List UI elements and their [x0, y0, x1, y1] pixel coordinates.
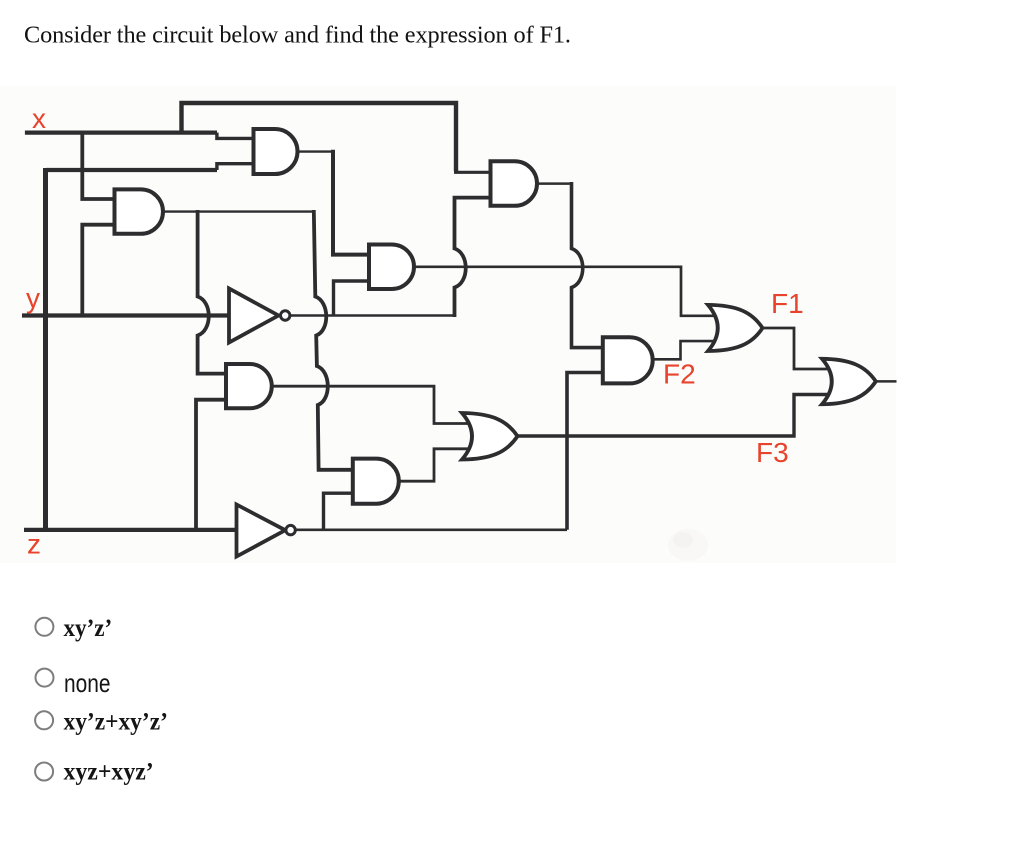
svg-text:none: none — [64, 668, 111, 698]
wire: N1 output line to corner x=454.5 — [291, 314, 456, 316]
wire: z up to U5 bottom input — [196, 400, 228, 530]
wire: U1 output right — [296, 150, 333, 152]
wire: U5 output right then down to OR U7 top input — [271, 386, 471, 423]
inverter N2 (input z) — [237, 505, 286, 557]
node x: input line — [25, 131, 217, 135]
svg-text:xyz+xyz’: xyz+xyz’ — [64, 759, 154, 786]
svg-text:F2: F2 — [663, 359, 696, 390]
and-gate U4 — [491, 161, 538, 206]
wire: U6 output right then up to OR U7 bottom input — [398, 449, 471, 481]
svg-text:F1: F1 — [771, 288, 804, 319]
wire: U9 output F1 right then down to OR U10 top input — [762, 328, 829, 369]
radio option 1 circle — [35, 618, 53, 636]
wire: z' up to U6 bottom input — [324, 493, 355, 530]
wire: U4 output right — [536, 182, 572, 185]
scanned circuit image background — [0, 86, 896, 563]
inverter N2 bubble — [286, 525, 295, 534]
and-gate U2 (inputs x,y) — [115, 189, 163, 233]
and-gate U1 (inputs x,y) — [254, 129, 298, 174]
node y: input line — [22, 313, 230, 317]
svg-text:Consider the circuit below and: Consider the circuit below and find the … — [24, 22, 571, 49]
svg-text:F3: F3 — [756, 437, 789, 468]
wire: N2 output line z' to corner x=567 — [295, 528, 567, 531]
and-gate U6 (U2out, z') — [353, 459, 399, 504]
radio option 4 circle — [35, 763, 53, 781]
wire: U2 output line — [162, 210, 314, 212]
and-gate U3 — [369, 245, 414, 290]
scan smudge artifact — [668, 529, 708, 561]
radio option 3 circle — [35, 711, 53, 729]
wire: N1 output up to U3 bottom input — [334, 281, 372, 316]
wire: U2 out down at x=197.6 hopping y-line to U5 top input — [198, 210, 228, 374]
wire: x down to U2 top input — [82, 131, 116, 199]
wire: U8 output F2 up to OR U9 bottom input — [652, 341, 714, 359]
svg-text:y: y — [26, 283, 40, 314]
or-gate U9 (F1) — [708, 305, 763, 351]
svg-text:x: x — [32, 103, 46, 134]
wire: vertical of U4 output with hop, to U8 top input — [572, 182, 605, 348]
wire: top wire from x-line up and over to AND U4 top input — [182, 103, 457, 171]
wire: U2 out down at x=313.5 hopping y-line and U5 output to U6 top input — [314, 210, 354, 470]
svg-text:xy’z+xy’z’: xy’z+xy’z’ — [64, 709, 168, 736]
wire: U10 output stub — [875, 380, 897, 383]
and-gate U8 (F2) — [603, 337, 653, 383]
inverter N1 bubble — [281, 311, 290, 320]
wire: y up to U1 lower input line — [46, 168, 217, 172]
inverter N1 (input y) — [229, 289, 279, 343]
wire: U4 top input stub — [454, 171, 493, 174]
wire: step up into U1 bottom input — [217, 164, 255, 170]
svg-text:z: z — [27, 529, 41, 560]
wire: x bus step down into U1 top input — [217, 133, 255, 139]
wire: U3 output right, corner down to OR U9 top input — [413, 267, 715, 316]
wire: U7 output F3 line right, corner up to OR U10 bottom input — [517, 395, 828, 437]
wire: N1 output up, hop over U3 output, to U4 bottom input — [455, 198, 493, 317]
wire: z' up crossing F3 line to U8 bottom input — [567, 373, 604, 530]
radio option 2 circle — [36, 669, 54, 687]
wire: vertical from U1 output to U3 top input — [333, 150, 371, 255]
svg-text:xy’z’: xy’z’ — [64, 615, 113, 642]
node z: input line — [24, 528, 239, 532]
and-gate U5 (U2out, z) — [226, 364, 272, 408]
or-gate U10 (final output) — [822, 359, 876, 404]
wire: y up to U2 bottom input — [82, 225, 116, 316]
or-gate U7 — [462, 413, 518, 460]
